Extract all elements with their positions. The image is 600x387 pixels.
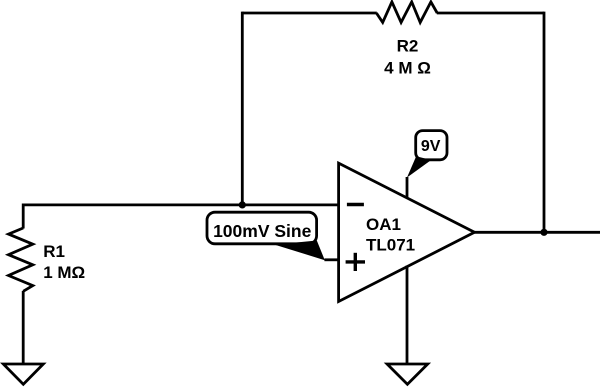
- svg-text:4 M Ω: 4 M Ω: [384, 59, 431, 78]
- op-amp inverting input minus marker: [347, 203, 364, 206]
- wire: R1 top vertical stub: [22, 204, 25, 229]
- ground (middle, below op-amp): [387, 364, 428, 384]
- ground (left, below R1): [3, 364, 43, 384]
- svg-text:R2: R2: [397, 37, 419, 56]
- wire: top feedback horizontal left of R2: [242, 12, 376, 15]
- op-amp U1 (OA1 TL071) triangle body: [339, 163, 475, 301]
- node: junction dot at output / feedback: [540, 229, 547, 236]
- op-amp non-inverting input plus marker: [346, 253, 365, 271]
- wire: op-amp non-inverting input stub: [324, 258, 338, 261]
- wire: left feedback vertical from top corner down to input node: [241, 12, 244, 205]
- svg-text:1 MΩ: 1 MΩ: [43, 263, 85, 282]
- wire: output from op-amp apex to right edge: [475, 231, 600, 234]
- wire: right vertical from top corner down to output node: [543, 12, 546, 233]
- wire: R1 bottom vertical to ground: [22, 291, 25, 364]
- svg-text:100mV Sine: 100mV Sine: [213, 221, 312, 241]
- wire: op-amp V+ pin up to 9V callout: [406, 177, 409, 199]
- wire: input horizontal from R1 top to op-amp inverting input: [23, 203, 338, 206]
- resistor R2 zigzag: [376, 2, 437, 23]
- svg-text:OA1: OA1: [366, 215, 401, 234]
- 9V voltage callout box: [407, 131, 447, 178]
- node: junction dot at inverting input / feedback: [239, 201, 246, 208]
- svg-text:9V: 9V: [421, 138, 441, 155]
- wire: top feedback horizontal right of R2: [437, 12, 544, 15]
- svg-text:TL071: TL071: [366, 236, 415, 255]
- svg-text:R1: R1: [43, 242, 65, 261]
- 100mV Sine source callout box: [207, 212, 325, 260]
- resistor R1 zigzag: [9, 228, 33, 291]
- wire: op-amp V- pin down to ground: [406, 266, 409, 365]
